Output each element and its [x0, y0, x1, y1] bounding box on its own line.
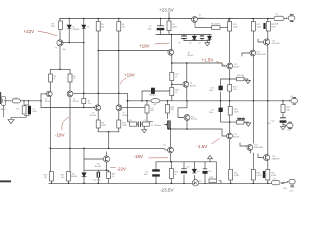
- svg-text:C12: C12: [186, 167, 189, 169]
- node dot bottom rail x171: [171, 183, 173, 185]
- svg-text:BD140: BD140: [233, 136, 239, 138]
- ground zener cluster: [205, 43, 210, 46]
- capacitor C12 zobel: [280, 118, 286, 123]
- node dot H4 vbe: [186, 62, 188, 64]
- capacitor C8 feedback: [138, 121, 140, 127]
- resistor R1: [59, 21, 63, 30]
- node dot rail x253: [253, 18, 255, 20]
- resistor R24 emitter 0.33R: [229, 170, 233, 181]
- svg-text:R13: R13: [129, 120, 132, 122]
- svg-text:10k: 10k: [63, 49, 66, 51]
- resistor R6: [251, 22, 255, 32]
- resistor R17 Qc gnd: [237, 77, 245, 81]
- node dot out x187: [186, 100, 188, 102]
- node dot out x267: [267, 100, 269, 102]
- transistor Q7 vbe: [183, 81, 189, 87]
- node dot base line x69: [69, 148, 71, 150]
- wire Q1 base: [63, 42, 84, 44]
- capacitor C1 input: [12, 99, 20, 103]
- terminal K3 speaker gnd: [285, 122, 293, 129]
- resistor R5: [228, 22, 232, 32]
- ground input: [8, 120, 14, 124]
- capacitor C9 lower elco: [153, 170, 160, 172]
- zener D5: [192, 169, 196, 173]
- node dot base line x108: [108, 148, 110, 150]
- svg-text:T1: T1: [55, 48, 57, 50]
- node dot Q13 gnd leg: [229, 121, 230, 122]
- svg-text:-23.5: -23.5: [289, 191, 293, 193]
- svg-text:C9: C9: [144, 120, 146, 122]
- svg-text:C14: C14: [271, 121, 274, 123]
- node dot base line x84: [83, 148, 85, 150]
- resistor R11 bias Rx: [82, 99, 86, 104]
- leader -22V: [110, 167, 116, 169]
- wire Qg output column: [267, 19, 269, 184]
- node dot Qc emitter: [229, 78, 230, 79]
- svg-text:1k5: 1k5: [61, 177, 64, 179]
- wire Q2 base: [41, 93, 46, 95]
- svg-text:MJE15031: MJE15031: [254, 147, 263, 149]
- svg-text:100R: 100R: [234, 111, 239, 113]
- node dot Rx base: [83, 107, 84, 108]
- svg-text:47k: 47k: [88, 103, 91, 105]
- transistor Q5 LTP: [116, 105, 122, 111]
- svg-text:R22: R22: [210, 177, 213, 179]
- scan artifact left edge bottom: [0, 180, 11, 182]
- node dot out x142: [141, 100, 143, 102]
- svg-text:BD139: BD139: [234, 66, 240, 68]
- diode D8 parallel R26: [263, 171, 265, 178]
- resistor R12 LTP emitter: [96, 120, 100, 128]
- svg-text:-23.5V: -23.5V: [160, 188, 174, 193]
- ground lower cluster: [208, 156, 213, 159]
- resistor R13 LTP emitter: [117, 120, 121, 128]
- svg-text:BC546: BC546: [90, 115, 96, 117]
- node dot bottom rail x205: [204, 183, 205, 184]
- svg-text:220R: 220R: [102, 125, 107, 127]
- resistor R7: [266, 22, 270, 32]
- node dot bottom rail x68: [68, 183, 70, 185]
- svg-text:+19V: +19V: [124, 73, 135, 78]
- svg-text:-22V: -22V: [117, 167, 127, 172]
- node dot bottom rail x51: [51, 183, 52, 184]
- wire LTP tail: [98, 132, 119, 149]
- resistor R33: [166, 105, 170, 114]
- wire Qvbe column: [186, 63, 188, 108]
- node dot bottom rail x194: [194, 183, 195, 184]
- resistor R27 input shunt: [22, 106, 26, 114]
- svg-text:L1 2u2: L1 2u2: [150, 95, 156, 97]
- transistor Q3: [67, 91, 73, 97]
- svg-text:C1 1uF: C1 1uF: [12, 98, 19, 100]
- wire top +23.5V rail: [60, 18, 274, 20]
- terminal K2 speaker out: [289, 98, 297, 105]
- svg-text:INPUT: INPUT: [1, 109, 8, 111]
- wire zener cluster bus: [184, 41, 210, 43]
- capacitor C10: [181, 169, 187, 173]
- capacitor C4 polarized: [157, 25, 164, 27]
- transistor Q6 Ta: [168, 49, 174, 55]
- leader -19V left: [62, 117, 69, 130]
- svg-text:X2: X2: [199, 181, 201, 183]
- node dot collector line x84: [83, 93, 85, 95]
- node dot bottom rail x98: [98, 183, 100, 185]
- transistor Q4 LTP: [95, 105, 101, 111]
- node dot H3 x118: [118, 50, 120, 52]
- resistor R23 horizontal: [209, 179, 217, 183]
- terminal K5 supply -23.5V: [192, 180, 198, 186]
- node dot out x229: [229, 100, 231, 102]
- ground Qc resistor: [245, 80, 250, 83]
- node dot y129 x169: [168, 128, 170, 130]
- svg-text:BD140: BD140: [191, 119, 197, 121]
- svg-text:330: 330: [171, 109, 174, 111]
- wire H4 driver feed: [172, 63, 227, 66]
- svg-text:+19V: +19V: [139, 43, 150, 48]
- leader +1.5V: [216, 62, 226, 67]
- node dot Q1 base D2: [83, 42, 84, 43]
- wire bottom -23.5V rail: [49, 182, 287, 185]
- svg-text:10k: 10k: [122, 26, 125, 28]
- resistor R9: [49, 74, 53, 82]
- node dot bottom rail x267: [267, 183, 269, 185]
- transistor Q1: [57, 40, 63, 46]
- svg-text:2SC5200: 2SC5200: [272, 43, 280, 45]
- wire lower bias line: [156, 161, 216, 163]
- svg-text:220R: 220R: [122, 125, 127, 127]
- fuse F1: [274, 16, 284, 21]
- capacitor C11: [203, 169, 207, 174]
- svg-text:1k: 1k: [112, 176, 114, 178]
- resistor R10: [68, 74, 72, 82]
- node dot Q1 base D1: [69, 42, 70, 43]
- node dot vbe base: [171, 84, 173, 86]
- transistor Q14 driver: [250, 50, 256, 56]
- node dot rail x118: [118, 18, 119, 19]
- svg-text:C13: C13: [208, 171, 211, 173]
- capacitor C7 lower: [219, 108, 223, 112]
- svg-text:1k: 1k: [175, 174, 177, 176]
- connector J1 input: [1, 96, 6, 105]
- svg-text:BC556: BC556: [73, 101, 79, 103]
- capacitor C3 miller: [151, 88, 155, 94]
- trimmer VR1: [167, 121, 170, 129]
- capacitor C7 upper: [219, 86, 223, 91]
- resistor R20: [50, 172, 54, 182]
- resistor R4: [167, 21, 171, 31]
- wire Qc emitter gnd resistor: [221, 79, 248, 122]
- resistor R8 horizontal regulator: [212, 26, 221, 30]
- wire feedback divider: [128, 101, 153, 130]
- svg-text:0.33R: 0.33R: [271, 175, 277, 177]
- node dot input stack: [28, 100, 29, 101]
- node dot collector line x98: [97, 93, 99, 95]
- svg-text:0.33R: 0.33R: [257, 175, 263, 177]
- resistor R3: [117, 22, 121, 32]
- svg-text:1N4148: 1N4148: [73, 29, 80, 31]
- wire QB column: [69, 69, 71, 183]
- node dot collector line x118: [118, 93, 120, 95]
- svg-text:1k: 1k: [175, 77, 177, 79]
- node dot base line x50: [50, 148, 52, 150]
- svg-text:-19V: -19V: [134, 154, 144, 159]
- svg-text:2SA1943: 2SA1943: [272, 157, 280, 160]
- node dot out x283: [282, 100, 284, 102]
- wire fuse F1 leads: [285, 18, 287, 20]
- svg-text:1k: 1k: [175, 92, 177, 94]
- resistor R35 upper: [228, 85, 232, 92]
- resistor R31: [107, 172, 111, 179]
- node dot tail: [108, 131, 110, 133]
- wire base line lower: [50, 148, 167, 150]
- capacitor C5: [181, 36, 187, 38]
- svg-text:T11: T11: [163, 144, 166, 146]
- wire output line: [128, 100, 290, 102]
- svg-text:100u: 100u: [148, 28, 152, 30]
- wire Q2b column: [118, 19, 120, 132]
- node dot y129 x187: [186, 128, 188, 130]
- svg-text:100R: 100R: [257, 26, 262, 28]
- wire Qf base stub: [240, 143, 247, 146]
- svg-text:BD139: BD139: [190, 85, 196, 87]
- transistor Q10: [103, 156, 109, 162]
- svg-text:100u: 100u: [144, 174, 148, 176]
- wire Rx bias: [83, 93, 85, 107]
- zener D4: [207, 36, 211, 40]
- svg-text:1N4148: 1N4148: [71, 176, 78, 178]
- svg-text:D5: D5: [197, 171, 199, 173]
- node dot bottom rail x229: [230, 183, 232, 185]
- node dot rail x83: [83, 18, 84, 19]
- transistor Q2: [46, 91, 52, 97]
- svg-text:1k5: 1k5: [44, 177, 47, 179]
- node dot Ta emitter: [171, 62, 173, 64]
- wire VAS emitter: [186, 121, 188, 130]
- wire Ta column: [168, 35, 172, 184]
- wire Qg base stub: [258, 39, 265, 42]
- wire Qe driver column: [251, 19, 254, 184]
- leader -19V mid: [149, 157, 169, 159]
- wire collector line LTP: [74, 93, 128, 101]
- svg-text:-1.5V: -1.5V: [197, 144, 208, 149]
- transistor Q16 output: [264, 39, 270, 45]
- svg-text:R1: R1: [17, 109, 19, 111]
- node dot H2: [171, 34, 173, 36]
- svg-text:C15 100n: C15 100n: [93, 180, 101, 182]
- ground feedback: [142, 130, 147, 133]
- transistor Q12 predriver: [227, 63, 233, 69]
- wire bias line H2: [156, 34, 211, 36]
- resistor R25 emitter 0.33R: [251, 170, 255, 181]
- resistor R22: [169, 169, 173, 179]
- svg-text:100n: 100n: [209, 90, 213, 92]
- node dot rail x69: [69, 18, 70, 19]
- terminal K1 +supply: [286, 15, 295, 22]
- leader -1.5V: [212, 138, 220, 144]
- wire zobel branch: [283, 101, 291, 127]
- node dot out corner: [127, 100, 129, 102]
- wire Q1 column: [59, 19, 61, 70]
- transistor Q11 regulator: [192, 17, 212, 28]
- svg-text:0.33R: 0.33R: [234, 175, 240, 177]
- wire +19V sub-rail: [98, 50, 168, 52]
- resistor R18: [228, 107, 232, 116]
- wire miller cap branch: [142, 91, 171, 101]
- wire diode bias column: [69, 19, 84, 94]
- svg-text:BC546: BC546: [123, 115, 129, 117]
- transistor Q8 VAS: [184, 115, 190, 121]
- wire Qvbe base stub: [172, 83, 183, 85]
- svg-text:220p: 220p: [33, 111, 37, 113]
- resistor R28 fb network: [130, 122, 137, 126]
- wire lower cluster stubs: [156, 159, 210, 184]
- node dot bottom rail x184: [183, 183, 184, 184]
- node dot input corner: [40, 100, 41, 101]
- wire Q1b column: [97, 19, 99, 132]
- node dot junction y68: [59, 69, 61, 71]
- resistor R15: [170, 88, 174, 96]
- wire regulator resistor link: [220, 19, 228, 28]
- zener D3: [192, 36, 196, 40]
- svg-text:100R: 100R: [172, 26, 177, 28]
- transistor Q17 output: [264, 154, 270, 160]
- svg-text:BC546: BC546: [95, 166, 101, 168]
- svg-text:F1: F1: [276, 14, 278, 16]
- wire +23.5V feed: [168, 13, 170, 35]
- capacitor C2 input shunt: [28, 106, 31, 115]
- leader +22V: [38, 31, 58, 36]
- node dot out x171: [167, 100, 169, 102]
- svg-text:D4: D4: [207, 43, 209, 45]
- wire rail bypass cap C4: [160, 19, 162, 35]
- node dot H3 start: [98, 50, 99, 51]
- transistor Q9 Tb: [168, 147, 174, 153]
- wire input signal: [6, 94, 95, 108]
- scan artifact left edge mid: [0, 92, 1, 104]
- node dot rail x229: [229, 18, 231, 20]
- resistor R30 lower gnd leg: [237, 121, 245, 125]
- svg-text:R12 220R: R12 220R: [211, 23, 220, 25]
- svg-text:+23.5V: +23.5V: [159, 8, 175, 13]
- node dot bottom rail x105: [83, 183, 85, 185]
- svg-text:BD139: BD139: [199, 17, 205, 19]
- svg-text:1k: 1k: [73, 78, 75, 80]
- node dot Q10 emitter bus: [106, 169, 108, 171]
- svg-text:R29 10k: R29 10k: [238, 119, 245, 121]
- node dot y129 x170: [170, 128, 171, 129]
- wire -22V transistor branch: [84, 148, 109, 183]
- diode D2: [82, 25, 86, 29]
- wire Qe base stub: [242, 53, 250, 56]
- inductor L1: [151, 99, 160, 103]
- leader +19V mid: [121, 78, 127, 85]
- svg-text:+1.5V: +1.5V: [202, 57, 214, 62]
- node dot rail x267: [267, 18, 269, 20]
- svg-text:C6: C6: [178, 43, 180, 45]
- svg-text:D3: D3: [189, 43, 191, 45]
- svg-text:MJE15030: MJE15030: [256, 54, 265, 56]
- node dot bottom rail x156: [155, 183, 156, 184]
- node dot out x220: [220, 100, 222, 102]
- diode D7 parallel R7: [263, 23, 265, 29]
- svg-text:-19V: -19V: [55, 132, 65, 137]
- svg-text:680: 680: [151, 110, 154, 112]
- node dot rail x160: [160, 18, 161, 19]
- transistor Q15 driver: [247, 145, 253, 151]
- node dot out x147: [146, 100, 148, 102]
- node dot out x253: [253, 100, 255, 102]
- wire zener cluster stubs: [184, 35, 210, 41]
- svg-text:BD139: BD139: [188, 55, 194, 57]
- resistor R16 feedback: [145, 105, 149, 113]
- node dot input stack b: [23, 100, 24, 101]
- wire VAS loop: [178, 108, 187, 118]
- svg-text:10k: 10k: [101, 26, 104, 28]
- leader +19V top: [155, 43, 170, 44]
- terminal K4 -supply: [287, 179, 295, 187]
- wire current source bus y68: [50, 68, 70, 70]
- svg-text:BC556: BC556: [45, 101, 51, 103]
- wire lower right resistor link: [216, 162, 221, 184]
- wire Qh base stub: [258, 154, 265, 158]
- node dot lower bias x171: [171, 161, 173, 163]
- svg-text:+22V: +22V: [24, 29, 35, 34]
- svg-text:100R: 100R: [233, 26, 238, 28]
- svg-text:R9: R9: [154, 104, 156, 106]
- svg-text:F2: F2: [274, 179, 276, 181]
- resistor R2: [96, 22, 100, 32]
- svg-text:LS-: LS-: [288, 130, 291, 132]
- wire mid bias node line y129: [169, 129, 227, 136]
- diode D1: [67, 25, 71, 29]
- svg-text:1k: 1k: [54, 78, 56, 80]
- svg-text:R22 10k: R22 10k: [237, 75, 244, 77]
- svg-text:100n: 100n: [267, 123, 271, 125]
- svg-text:+23.5: +23.5: [289, 14, 294, 16]
- resistor R21: [67, 172, 71, 182]
- resistor R29 fb network: [143, 122, 150, 126]
- wire Q2b base feedback: [122, 107, 145, 109]
- wire Qc predriver column: [230, 19, 231, 184]
- svg-text:100n: 100n: [209, 112, 213, 114]
- capacitor C6: [200, 36, 204, 38]
- ground zobel: [281, 127, 286, 130]
- wire QA column: [50, 69, 51, 183]
- resistor R14 Ta emitter: [170, 73, 174, 81]
- fuse F2: [272, 181, 281, 185]
- svg-text:D2: D2: [87, 27, 89, 29]
- svg-text:C7: C7: [198, 43, 200, 45]
- capacitor C15: [97, 172, 99, 177]
- node dot rail feed: [168, 18, 170, 20]
- resistor R26 emitter 0.33R: [266, 170, 270, 181]
- node dot rail x98: [98, 18, 99, 19]
- node dot bottom rail x253: [253, 183, 255, 185]
- diode D6: [82, 173, 86, 177]
- resistor R19 zobel 10R: [281, 105, 285, 113]
- transistor Q13: [227, 133, 233, 139]
- svg-text:P1 2k2 Bias: P1 2k2 Bias: [151, 125, 161, 127]
- svg-text:100R: 100R: [271, 26, 276, 28]
